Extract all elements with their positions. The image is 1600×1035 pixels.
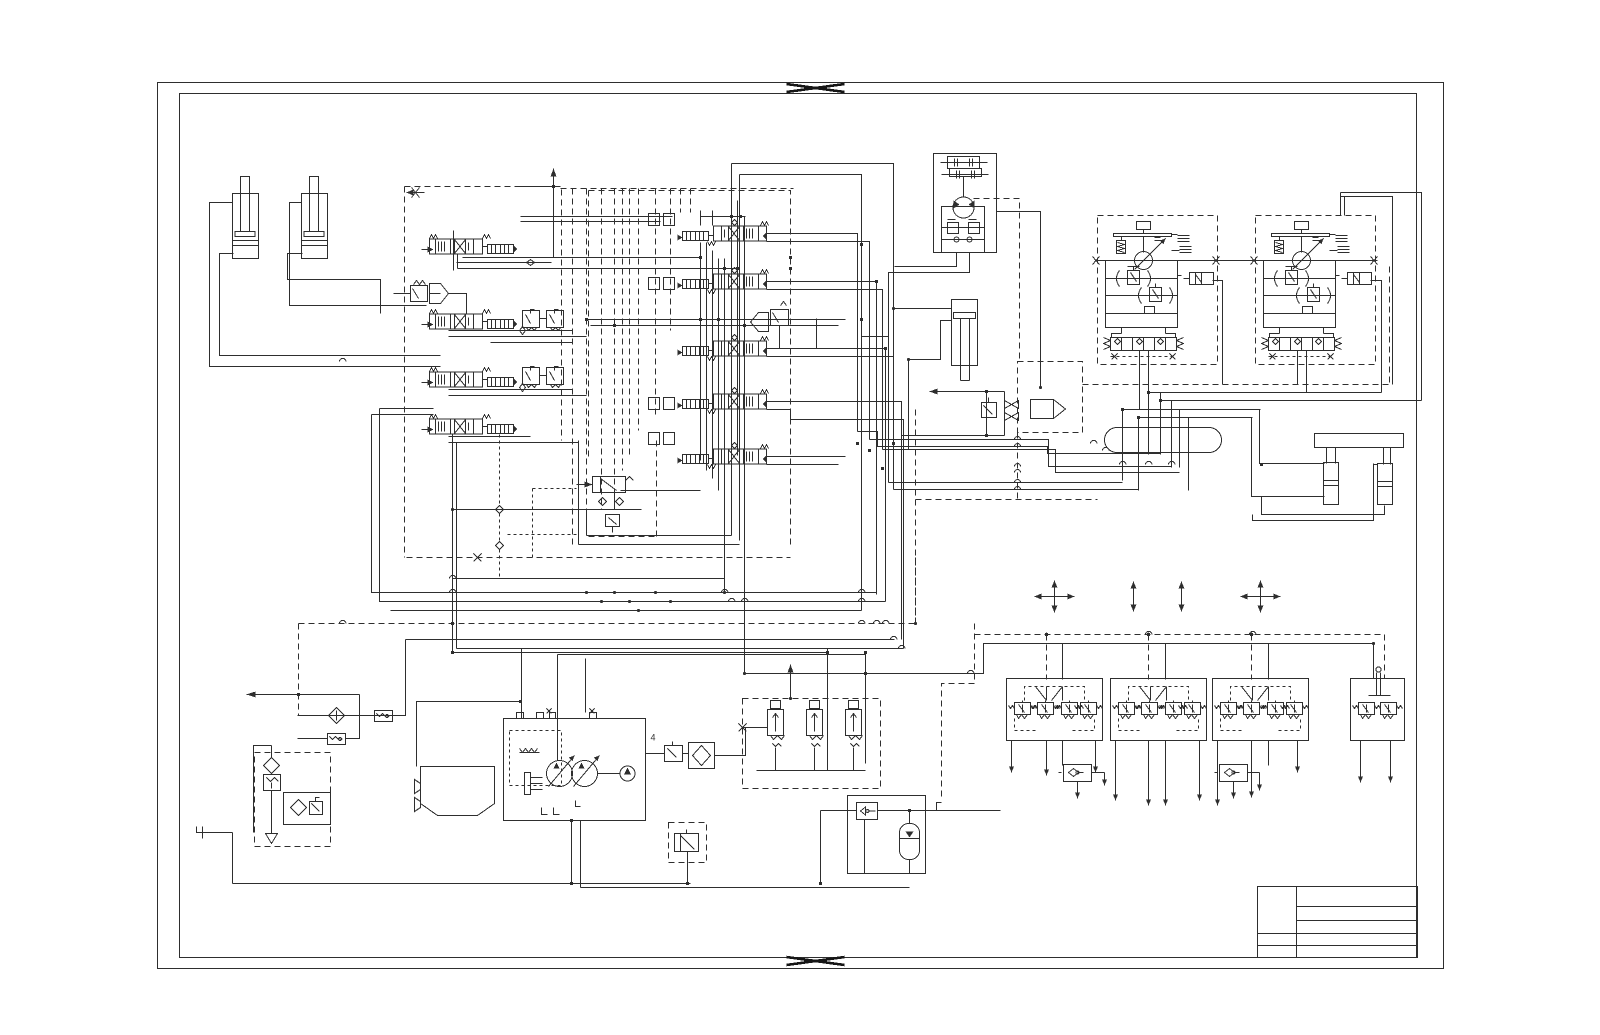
connector stack left of pumps [525,773,543,795]
cylinder 2 [302,177,328,259]
pilot check left [411,281,449,304]
travel unit 1 [1093,216,1220,365]
bottom connection [571,821,573,884]
pilot box C [1213,679,1309,741]
pump 1 [547,761,573,787]
border frame outer [158,83,1444,969]
ports on top [517,713,597,719]
swivel joint body [1105,428,1222,453]
spool valve row C [678,335,769,361]
wire return y648 [453,435,904,653]
extra dashed fragments [589,191,934,624]
check with spring box lower [298,695,360,745]
mid horizontal joins [587,320,846,326]
cylinder2 piping [290,203,427,306]
main filter group dashed box [255,746,331,847]
spool valve row A [678,220,769,246]
compensator pair lower [520,367,564,392]
travel unit 2 [1251,216,1378,365]
wire supply loop inner [740,175,862,611]
pilot box B [1111,679,1207,741]
fold mark bottom [787,957,845,965]
fold mark top [787,84,845,92]
small valve below bank [453,435,642,579]
wire bus y578 [453,579,725,593]
cylinder 1 [233,177,259,259]
wire bank box inner [380,409,886,602]
hydraulic tank [421,767,495,816]
wire pump line y639 [406,639,895,641]
border frame inner [180,94,1417,958]
wire pilot supply y652 [453,653,866,764]
dashed enclosure left bank [405,187,562,558]
breather line [298,640,406,716]
line hop marks [340,358,1256,673]
spool valve row 3 [422,368,518,388]
pilot pump [620,766,635,781]
solid verticals center [701,164,745,674]
pilot box D [1351,635,1405,741]
wire pilot bus y643 [745,644,1374,674]
spool valve row 4 [422,415,518,435]
wire pilot dashed y499 [916,433,1098,500]
svg-text:4: 4 [651,733,656,743]
comp boxes left of rows [649,214,675,445]
spool valve row B [678,268,769,294]
row networks [454,231,458,271]
pilot box A [1007,679,1103,741]
spool valve row 1 [422,235,518,255]
air filter diamond [329,708,345,724]
wire tank return bus y883 [233,833,691,884]
spool valve row D [678,388,769,414]
bank bottom closures [587,510,732,536]
return port symbol [197,827,233,839]
spool valve row E [678,443,769,469]
lines below boxes [1009,741,1393,806]
engine-pump enclosure [504,719,646,821]
wire tank return y887 [581,887,910,889]
cylinder1 piping [210,203,441,367]
wire dashed drain bus y623 [299,624,916,716]
left arrow line [247,694,360,696]
wire supply loop outer [732,164,894,444]
swing unit piping [862,253,970,337]
arrows [1035,581,1075,613]
drain glyphs [542,801,581,815]
compensator pair upper [520,310,564,335]
wire bank box outer [372,415,877,593]
flow control mark top-left [407,188,425,198]
drops to boxes [1047,635,1252,680]
inner box with bypass filter [284,793,331,825]
shuttle valves [1059,765,1097,782]
wire bus y610 [391,610,862,612]
pilot check right horn [751,302,817,349]
pump 2 [572,761,598,787]
spool valve row 2 [422,310,518,330]
title block [1258,887,1418,958]
check with spring box right [375,711,393,722]
